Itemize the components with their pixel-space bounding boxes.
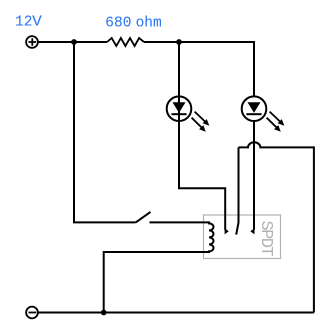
svg-text:SPDT: SPDT xyxy=(256,221,275,257)
svg-text:12: 12 xyxy=(15,15,32,31)
svg-text:V: V xyxy=(32,15,42,31)
svg-text:680: 680 xyxy=(105,15,131,31)
svg-text:ohm: ohm xyxy=(136,15,162,31)
